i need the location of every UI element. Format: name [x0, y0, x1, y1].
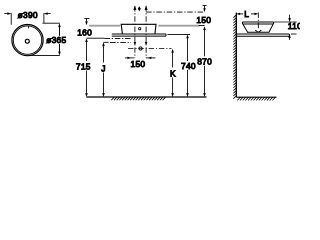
bowl body right side	[269, 24, 273, 32]
svg-text:110: 110	[288, 21, 300, 31]
svg-text:ø390: ø390	[18, 10, 38, 20]
svg-text:K: K	[170, 68, 176, 78]
mixer diamond symbol	[138, 6, 141, 11]
drain ring	[25, 39, 29, 43]
floor line middle	[86, 96, 206, 98]
countertop slab middle	[112, 34, 166, 36]
faucet centerline horizontal dash-dot	[146, 11, 205, 13]
dim 110 rim extension	[274, 21, 297, 23]
dim L line	[240, 13, 243, 15]
svg-text:ø365: ø365	[46, 35, 66, 45]
floor line right view	[236, 96, 276, 98]
dim 150 between supplies: right arrow	[146, 57, 156, 59]
bowl rim end caps	[242, 22, 273, 24]
dim ø390 extension line right	[43, 13, 45, 23]
supply centerline left vertical dash-dot	[134, 6, 136, 58]
svg-text:740: 740	[181, 61, 196, 71]
bowl drain notch V	[255, 30, 261, 32]
dim ø390 extension line left	[10, 13, 12, 25]
dim 110 lower segment	[289, 37, 291, 40]
dim 150 between supplies: left arrow	[125, 57, 134, 59]
svg-text:L: L	[244, 9, 249, 19]
supply arrow left tip	[133, 5, 136, 10]
dim 110 upper segment	[289, 15, 291, 19]
supply arrow right tip	[145, 5, 148, 10]
basin centerline dash-dot right view	[257, 12, 259, 30]
supply centerline right vertical dash-dot	[145, 6, 147, 58]
svg-text:715: 715	[76, 61, 91, 71]
dim 110 counter extension	[291, 33, 297, 35]
drain outlet circle	[139, 47, 142, 50]
dim J line	[103, 46, 105, 63]
dim ø365 bottom extension	[30, 54, 60, 56]
supply pipes level dash-dot	[87, 37, 105, 39]
bowl side view: rim top line	[242, 21, 273, 23]
dim K line	[172, 52, 174, 68]
dim ø390 arrow right	[47, 13, 51, 15]
floor hatching right view	[237, 97, 275, 100]
svg-text:160: 160	[77, 27, 92, 37]
drain dot in basin	[139, 28, 141, 30]
dim 715 line	[86, 42, 88, 62]
dim 740 line	[187, 38, 189, 61]
basin front view trapezoid	[121, 24, 156, 34]
floor hatching middle	[111, 97, 165, 100]
label 870	[197, 57, 211, 66]
top center tick	[28, 26, 30, 28]
grey rim reference line left	[89, 25, 120, 27]
svg-text:150: 150	[196, 15, 211, 25]
dim ø390 label	[17, 10, 38, 19]
dim ø365 label	[46, 36, 66, 44]
countertop slab right view	[236, 34, 289, 36]
supply down arrows under counter	[134, 42, 137, 46]
waste level dash-dot J	[104, 41, 109, 43]
basin outer rim circle ø390	[12, 24, 43, 55]
dim 870 line: rim to floor	[204, 30, 206, 57]
svg-text:150: 150	[131, 59, 146, 69]
dim ø365 vertical line upper w/ up arrow	[59, 27, 61, 37]
bowl body left side	[243, 24, 248, 32]
drain notches	[28, 42, 29, 43]
dim ø365 top extension	[43, 22, 60, 24]
dim 150 top: down arrow segment	[203, 5, 207, 7]
dim ø365 vertical line lower w/ down arrow	[59, 44, 61, 52]
label 715	[75, 62, 91, 70]
bowl rim second line	[242, 23, 273, 25]
svg-text:J: J	[101, 63, 106, 73]
svg-text:870: 870	[197, 56, 212, 66]
counter top extension for 740	[168, 33, 191, 35]
drain trap centerline dash-dot	[128, 48, 172, 50]
dim ø390 arrow left	[4, 13, 8, 15]
bowl bottom	[247, 31, 270, 33]
wall line	[235, 13, 237, 98]
dim 160 vertical line	[84, 18, 89, 20]
wall hatching	[233, 15, 236, 99]
basin inner rim circle ø365	[13, 26, 41, 54]
grey rim reference line right	[158, 25, 199, 27]
